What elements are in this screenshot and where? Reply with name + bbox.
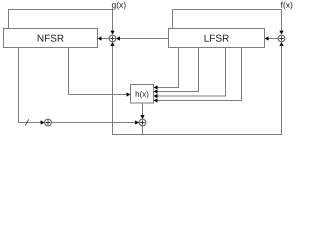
wire LFSR tap 2 to h(x) right input 2 bbox=[158, 48, 199, 92]
label LFSR bbox=[205, 35, 229, 42]
wire g(x) feedback loop from NFSR top to XOR1 top bbox=[9, 10, 113, 31]
wire LFSR tap 3 to h(x) right input 3 bbox=[158, 48, 226, 97]
arrowhead into XOR4 left bbox=[135, 120, 139, 124]
XOR2 adder at LFSR input bbox=[278, 35, 285, 42]
arrowhead into h(x) left bbox=[127, 92, 131, 96]
wire f(x) feedback loop from LFSR top to XOR2 top bbox=[173, 10, 282, 31]
arrowhead into XOR1 right bbox=[116, 36, 120, 40]
XOR3 sum of NFSR taps bbox=[45, 119, 52, 126]
arrowhead into XOR3 bbox=[41, 120, 45, 124]
register NFSR box bbox=[4, 29, 98, 48]
arrowhead tap1 into h(x) bbox=[154, 85, 158, 89]
wire XOR3 output to XOR4 bbox=[51, 122, 135, 124]
arrowhead into XOR4 top bbox=[140, 115, 144, 119]
arrowhead into LFSR bbox=[265, 36, 269, 40]
label h(x) bbox=[136, 91, 149, 98]
wire LFSR left edge to XOR1 right bbox=[120, 38, 169, 40]
arrowhead tap3 into h(x) bbox=[154, 94, 158, 98]
wire XOR1 output to NFSR right edge bbox=[102, 38, 110, 40]
wire bottom feedback rail with left riser to XOR1 bottom and right riser to XOR2 bottom bbox=[113, 46, 282, 135]
wire NFSR tap to h(x) left input bbox=[69, 48, 127, 95]
filter function h(x) box bbox=[131, 85, 154, 104]
arrowhead riser into XOR1 bottom bbox=[110, 42, 114, 46]
label f(x) bbox=[281, 2, 293, 10]
arrowhead into NFSR bbox=[98, 36, 102, 40]
arrowhead riser into XOR2 bottom bbox=[279, 42, 283, 46]
wire h(x) output down to XOR4 bbox=[142, 103, 144, 115]
wire XOR2 output to LFSR right edge bbox=[269, 38, 279, 40]
XOR4 output adder bbox=[139, 119, 146, 126]
arrowhead tap4 into h(x) bbox=[154, 98, 158, 102]
XOR1 adder at NFSR input bbox=[109, 35, 116, 42]
bus-width slash mark bbox=[25, 119, 29, 125]
label NFSR bbox=[38, 35, 64, 42]
arrowhead g(x) into XOR1 top bbox=[110, 31, 114, 35]
arrowhead tap2 into h(x) bbox=[154, 89, 158, 93]
wire LFSR tap 4 to h(x) right input 4 bbox=[158, 48, 242, 101]
register LFSR box bbox=[169, 29, 265, 48]
wire NFSR tap bus down-left to sum XOR3 bbox=[19, 48, 41, 123]
arrowhead f(x) into XOR2 top bbox=[279, 31, 283, 35]
label g(x) bbox=[112, 2, 126, 10]
wire XOR4 output down to bottom rail bbox=[142, 126, 144, 135]
wire LFSR tap 1 to h(x) right input 1 bbox=[158, 48, 179, 88]
